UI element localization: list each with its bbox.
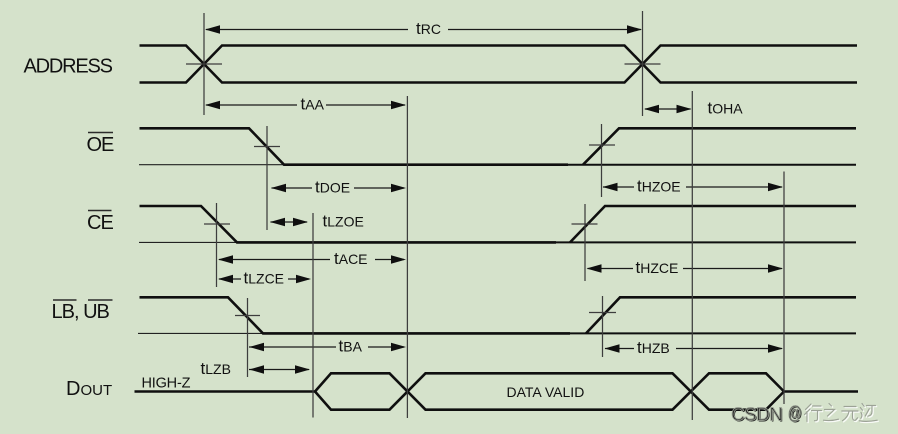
signal OE low rail continuation (284, 164, 856, 166)
svg-text:ADDRESS: ADDRESS (24, 56, 113, 78)
signal OE main trace (140, 128, 569, 164)
svg-text:DOUT: DOUT (66, 378, 112, 400)
svg-text:tOHA: tOHA (708, 99, 744, 118)
tick CE rise midpoint (572, 223, 598, 225)
label CE with overline (87, 211, 113, 235)
label HIGH-Z (142, 376, 191, 392)
signal OE rise (583, 128, 856, 164)
dimension tAA (205, 95, 406, 114)
label Dout (66, 378, 112, 400)
svg-text:OE: OE (87, 134, 115, 156)
vertical guide at LB fall (247, 298, 249, 377)
svg-text:tAA: tAA (301, 95, 325, 114)
label LB, UB with overlines (52, 300, 113, 323)
tick LB fall midpoint (235, 315, 260, 317)
tick OE rise midpoint (589, 144, 615, 146)
signal ADDRESS bus line A (high-low-high) (140, 46, 858, 83)
tick OE fall midpoint (254, 146, 280, 148)
signal CE rise (570, 206, 856, 242)
svg-text:CSDN: CSDN (731, 404, 783, 425)
dimension tLZOE (270, 212, 364, 231)
vertical guide at OE fall (266, 126, 268, 230)
svg-text:tDOE: tDOE (315, 178, 350, 197)
dimension tLZB (201, 359, 311, 378)
vertical guide V409 data valid start (406, 96, 408, 418)
label DATA VALID (507, 384, 585, 400)
svg-text:tHZCE: tHZCE (636, 258, 679, 277)
svg-text:tRC: tRC (416, 19, 441, 38)
svg-text:tLZOE: tLZOE (323, 212, 364, 231)
watermark CSDN text (731, 404, 784, 426)
label OE with overline (87, 133, 115, 157)
signal CE main trace (140, 206, 557, 242)
dimension tHZOE (603, 177, 784, 196)
dimension tHZB (605, 338, 784, 357)
signal ADDRESS bus line B (low-high-low) (140, 46, 858, 83)
svg-text:tLZCE: tLZCE (244, 269, 285, 288)
watermark at-sign (788, 403, 803, 424)
dimension tRC (205, 19, 642, 38)
signal OE thin low reference before fall (139, 164, 284, 166)
dimension tHZCE (587, 258, 784, 277)
signal LB UB rise (586, 297, 856, 333)
signal Dout bus bottom path (315, 373, 784, 409)
svg-text:HIGH-Z: HIGH-Z (142, 376, 191, 392)
svg-text:tLZB: tLZB (201, 359, 231, 378)
svg-text:LB, UB: LB, UB (52, 301, 110, 323)
svg-text:@: @ (788, 403, 802, 423)
svg-text:tBA: tBA (339, 337, 363, 356)
dimension tOHA (644, 99, 743, 118)
label ADDRESS (24, 56, 113, 78)
vertical guide at OE rise (601, 124, 603, 197)
svg-text:CE: CE (87, 212, 113, 234)
signal CE low rail continuation (237, 241, 856, 243)
watermark chinese glyphs hang (805, 404, 879, 423)
vertical guide V1 at left address crossover (203, 13, 205, 115)
signal Dout high-z line (135, 390, 316, 393)
svg-text:tACE: tACE (334, 249, 368, 268)
vertical guide at CE fall (216, 203, 218, 287)
tick CE fall midpoint (204, 223, 230, 225)
tick ADDRESS left crossover (186, 63, 222, 65)
vertical guide V5 dout start (312, 213, 314, 418)
signal LB UB low rail continuation (263, 332, 856, 334)
tick LB rise midpoint (589, 312, 616, 314)
signal Dout bus top path (315, 373, 858, 409)
signal LB UB main trace (140, 297, 571, 333)
dimension tLZCE (218, 269, 311, 288)
vertical guide V7 high-z end (783, 172, 785, 405)
svg-text:DATA VALID: DATA VALID (507, 384, 585, 400)
tick ADDRESS right crossover (625, 63, 661, 65)
dimension tDOE (271, 178, 406, 197)
dimension tBA (249, 337, 406, 356)
svg-text:tHZB: tHZB (637, 338, 670, 357)
signal LB UB thin low reference before fall (138, 332, 263, 334)
svg-text:tHZOE: tHZOE (637, 177, 681, 196)
vertical guide V6 data valid end (691, 91, 693, 420)
vertical guide at CE rise (584, 204, 586, 281)
vertical guide at LB rise (602, 296, 604, 357)
signal CE thin low reference before fall (139, 241, 237, 243)
vertical guide at right address crossover (642, 11, 644, 116)
dimension tACE (218, 249, 406, 268)
